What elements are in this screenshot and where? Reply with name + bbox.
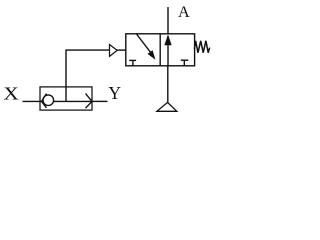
return spring bbox=[194, 41, 209, 53]
shuttle valve left seat bbox=[42, 94, 47, 108]
wire: pilot stub to valve bbox=[117, 49, 126, 51]
wire: port A bbox=[167, 7, 169, 34]
shuttle valve ball bbox=[43, 95, 54, 106]
wire: port X lead bbox=[23, 100, 41, 102]
svg-text:A: A bbox=[178, 2, 190, 21]
flow path arrow diagonal (left square) bbox=[137, 34, 152, 53]
valve body 3/2 bbox=[126, 34, 195, 66]
shuttle valve right seat bbox=[86, 94, 93, 109]
blocked port T (left square) bbox=[129, 59, 136, 61]
valve position divider bbox=[159, 34, 161, 66]
pilot triangle bbox=[110, 45, 118, 57]
flow path arrow up (right square) bbox=[167, 36, 169, 66]
svg-text:X: X bbox=[3, 84, 18, 104]
exhaust triangle bbox=[157, 102, 177, 111]
wire: exhaust line bbox=[167, 66, 169, 102]
blocked port T (right square) bbox=[181, 59, 189, 61]
wire: port Y lead bbox=[92, 100, 108, 102]
wire: shuttle output up bbox=[66, 50, 110, 101]
shuttle valve body bbox=[40, 87, 92, 110]
wire: shuttle internal passage bbox=[41, 100, 93, 102]
svg-text:Y: Y bbox=[108, 83, 121, 103]
